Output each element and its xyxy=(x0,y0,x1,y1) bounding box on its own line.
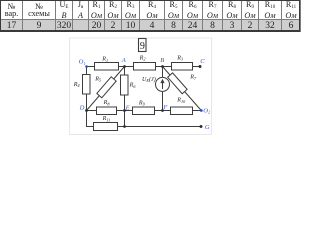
node E xyxy=(123,109,126,112)
svg-text:R7: R7 xyxy=(189,75,197,81)
svg-text:D: D xyxy=(79,104,85,111)
wire R10-O2 xyxy=(193,110,202,112)
node O1 xyxy=(85,65,88,68)
svg-text:R1: R1 xyxy=(101,57,108,63)
resistor R6 xyxy=(121,75,129,95)
svg-text:R3: R3 xyxy=(176,55,183,61)
terminal C xyxy=(199,65,202,68)
svg-text:R6: R6 xyxy=(129,83,137,89)
terminal O2 xyxy=(200,109,203,112)
figure frame xyxy=(70,38,212,135)
svg-text:R5: R5 xyxy=(94,76,101,82)
node F xyxy=(161,109,164,112)
terminal G xyxy=(200,125,203,128)
svg-text:UЕ(J): UЕ(J) xyxy=(142,76,156,83)
svg-text:R11: R11 xyxy=(102,116,111,122)
svg-text:R9: R9 xyxy=(138,100,146,106)
svg-text:R4: R4 xyxy=(73,82,80,88)
wire B-R3 xyxy=(163,66,172,68)
wire O1-R4 xyxy=(86,67,88,75)
wire R1-A xyxy=(119,66,125,68)
circuit schematic xyxy=(0,0,300,138)
node A xyxy=(123,65,126,68)
resistor R10 xyxy=(171,107,193,115)
wire R2-B xyxy=(156,66,163,68)
svg-text:A: A xyxy=(121,57,127,64)
svg-text:R10: R10 xyxy=(176,98,186,104)
wire R8-E xyxy=(117,110,125,112)
resistor R1 xyxy=(95,63,119,71)
node D xyxy=(85,109,88,112)
wire R3-C xyxy=(193,66,201,68)
wire R6-E xyxy=(124,95,126,111)
wire A-R2 xyxy=(125,66,134,68)
wire B-source xyxy=(162,67,164,78)
wire D-bottom corner xyxy=(87,111,94,127)
wire top O1-R1 xyxy=(87,66,95,68)
resistor R7 diagonal xyxy=(163,67,202,111)
svg-text:R8: R8 xyxy=(103,100,111,106)
resistor R3 xyxy=(172,63,193,71)
scheme number box xyxy=(139,39,147,52)
resistor R8 xyxy=(97,107,117,115)
resistor R4 xyxy=(83,75,91,95)
wire E-R9 xyxy=(125,110,133,112)
labels xyxy=(73,41,197,122)
resistor R5 diagonal xyxy=(87,67,125,111)
wire A-R6 xyxy=(124,67,126,76)
wire R11-junction-G xyxy=(118,126,202,128)
svg-text:9: 9 xyxy=(140,41,145,52)
data table xyxy=(0,0,301,32)
resistor R9 xyxy=(133,107,155,115)
resistor R2 xyxy=(134,63,156,71)
svg-text:C: C xyxy=(200,58,205,65)
table outer frame xyxy=(0,0,300,32)
svg-text:B: B xyxy=(160,57,164,64)
node bottom junction xyxy=(123,125,126,128)
resistor R11 xyxy=(94,123,118,131)
svg-text:O2: O2 xyxy=(203,107,210,114)
svg-text:R2: R2 xyxy=(139,55,146,61)
svg-text:G: G xyxy=(205,124,210,131)
wire F-R10 xyxy=(163,110,171,112)
junction and terminal dots xyxy=(85,65,203,128)
wire D-R8 xyxy=(87,110,97,112)
svg-text:E: E xyxy=(125,104,130,111)
wire R4-D xyxy=(86,94,88,111)
node B xyxy=(161,65,164,68)
svg-text:O1: O1 xyxy=(79,59,86,66)
wire source-F xyxy=(162,91,164,110)
wire R9-F xyxy=(155,110,163,112)
current source U_E(J) xyxy=(156,77,170,91)
wire E drop xyxy=(124,111,126,127)
